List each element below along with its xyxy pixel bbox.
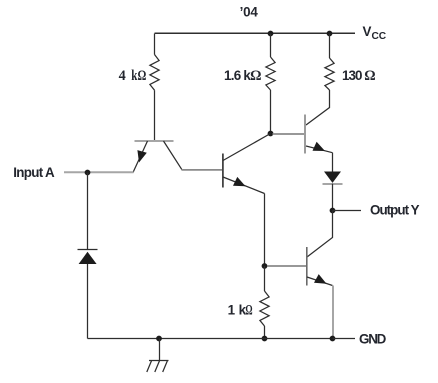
wire output node to Q4 collector bbox=[307, 211, 333, 258]
resistor R1 4 kOhm bbox=[150, 55, 159, 91]
wire D2 to output node bbox=[332, 184, 334, 211]
junction dot GND / ground symbol bbox=[156, 336, 162, 342]
wire Q4 emitter to GND rail bbox=[332, 286, 334, 339]
junction dot node B bbox=[268, 131, 274, 137]
wire Q3 emitter to D2 bbox=[332, 153, 334, 172]
Q4 base wire from node C bbox=[267, 265, 306, 267]
VCC label bbox=[363, 24, 387, 42]
junction dot VCC rail / R2 bbox=[268, 31, 274, 37]
svg-text:Output Y: Output Y bbox=[370, 203, 420, 218]
transistor Q4 lower output (base bar) bbox=[306, 247, 308, 286]
junction dot input node bbox=[85, 170, 91, 176]
Output Y label bbox=[370, 203, 420, 218]
junction dot VCC rail / R3 bbox=[327, 31, 333, 37]
svg-text:130 Ω: 130 Ω bbox=[342, 68, 376, 84]
junction dot node C bbox=[262, 263, 268, 269]
transistor Q3 upper output (base bar) bbox=[304, 115, 306, 154]
Q2 emitter wire with arrow bbox=[223, 177, 265, 194]
svg-text:’04: ’04 bbox=[240, 4, 259, 19]
diode D1 input clamp bbox=[78, 250, 98, 265]
title '04 bbox=[240, 4, 259, 19]
wire VCC rail bbox=[155, 32, 356, 34]
transistor Q2 phase splitter (base bar) bbox=[222, 154, 224, 188]
svg-text:4kΩ: 4kΩ bbox=[119, 68, 147, 84]
wire R3 to Q3 collector bbox=[306, 90, 330, 125]
wire output lead bbox=[333, 210, 362, 212]
svg-text:GND: GND bbox=[359, 332, 387, 347]
resistor R4 1 kOhm bbox=[260, 291, 269, 326]
GND label bbox=[359, 332, 387, 347]
label R3 value 130 Ohm bbox=[342, 68, 376, 84]
wire R2 to node B bbox=[270, 90, 272, 134]
wire R4 to GND rail bbox=[264, 326, 266, 339]
label R1 value 4 kOhm bbox=[119, 68, 147, 84]
Q2 collector wire to node B bbox=[223, 134, 271, 161]
wire VCC rail to R3 bbox=[329, 34, 331, 59]
junction dot output node bbox=[330, 208, 336, 214]
ground symbol bbox=[147, 339, 169, 373]
svg-text:1kΩ: 1kΩ bbox=[228, 303, 253, 319]
wire VCC rail to R2 bbox=[270, 34, 272, 58]
label R4 value 1 kOhm bbox=[228, 303, 253, 319]
resistor R2 1.6 kOhm bbox=[266, 57, 275, 90]
Q3 base wire from node B bbox=[273, 133, 305, 135]
junction dot GND right bbox=[330, 336, 336, 342]
wire GND dot to label bbox=[333, 338, 356, 340]
resistor R3 130 Ohm bbox=[325, 58, 334, 90]
wire D1 to GND rail bbox=[87, 264, 89, 339]
svg-text:1.6 kΩ: 1.6 kΩ bbox=[224, 68, 262, 84]
Q4 emitter wire with arrow bbox=[307, 274, 333, 285]
svg-text:Input A: Input A bbox=[13, 165, 55, 180]
diode D2 output level shift bbox=[323, 172, 343, 185]
wire input node to D1 bbox=[87, 173, 89, 250]
transistor Q1 input multi-emitter (base bar) bbox=[135, 140, 174, 142]
wire input lead bbox=[64, 171, 134, 173]
label R2 value 1.6 kOhm bbox=[224, 68, 262, 84]
wire Q2 emitter to node C bbox=[264, 194, 266, 267]
junction dot R4 / GND rail bbox=[262, 336, 268, 342]
wire R1 to Q1 base bbox=[154, 90, 156, 140]
Input A label bbox=[13, 165, 55, 180]
Q3 emitter wire with arrow bbox=[306, 142, 333, 153]
wire node C to R4 bbox=[264, 266, 266, 291]
svg-text:VCC: VCC bbox=[363, 24, 387, 42]
wire GND rail bbox=[88, 338, 333, 340]
wire VCC rail to R1 bbox=[154, 34, 156, 55]
Q1 emitter wire with arrow bbox=[133, 141, 148, 173]
Q1 collector wire to Q2 base bbox=[164, 141, 223, 170]
